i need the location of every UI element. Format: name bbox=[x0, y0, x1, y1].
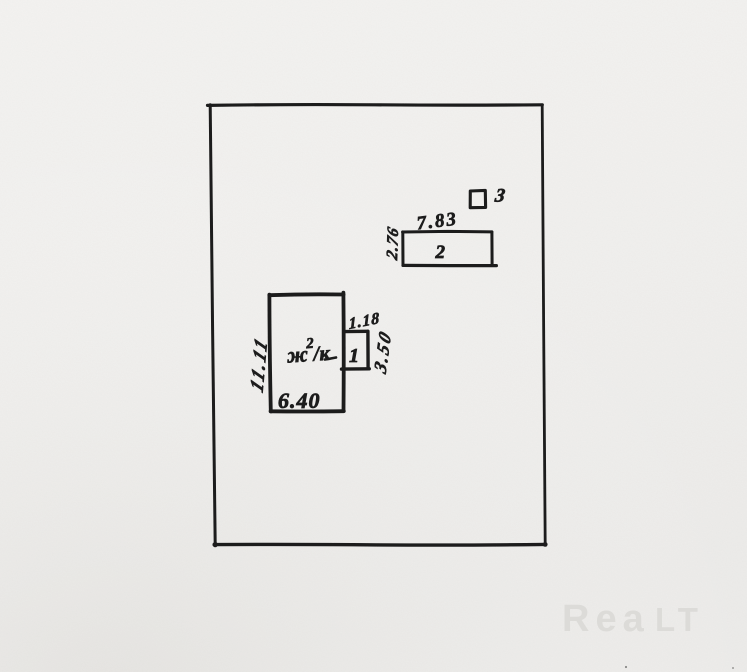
outbuilding rectangle 2 bbox=[403, 231, 497, 265]
label ж2/к inside dwelling bbox=[285, 335, 332, 368]
svg-text:1: 1 bbox=[349, 345, 359, 367]
boundary corner blobs bbox=[213, 542, 218, 547]
paper specks bbox=[625, 666, 627, 668]
plot boundary (outer land parcel rectangle) bbox=[208, 105, 546, 546]
svg-text:2: 2 bbox=[435, 242, 446, 263]
svg-text:2.76: 2.76 bbox=[382, 224, 402, 263]
svg-text:Rea: Rea bbox=[562, 598, 650, 640]
main dwelling rectangle (ж2/к) bbox=[269, 293, 344, 412]
flourish tail after к bbox=[325, 358, 336, 360]
shed square 3 bbox=[470, 190, 485, 207]
Realt watermark bbox=[562, 598, 703, 640]
svg-text:6.40: 6.40 bbox=[278, 388, 321, 413]
svg-text:LT: LT bbox=[655, 601, 703, 638]
porch rectangle 1 attached to dwelling bbox=[342, 331, 370, 369]
